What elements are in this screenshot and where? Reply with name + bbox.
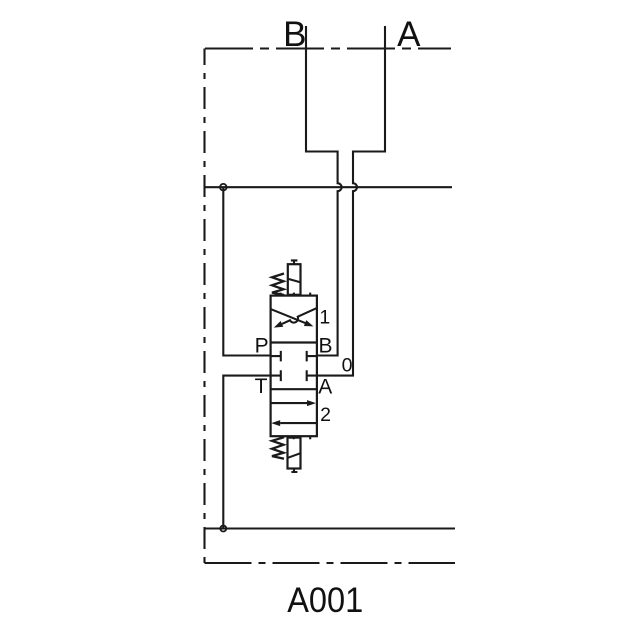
svg-text:B: B <box>283 15 306 54</box>
svg-text:T: T <box>255 375 268 398</box>
solenoid S2 manual override pin <box>291 469 297 473</box>
svg-text:P: P <box>255 334 269 357</box>
valve bottom edge tick marks <box>281 436 311 439</box>
enclosure bottom dash-dot boundary <box>205 562 456 564</box>
enclosure top dash-dot boundary <box>205 47 451 49</box>
valve position 1 crossed flow path B-to-T with hop <box>282 308 317 324</box>
solenoid S2 coil diagonal <box>288 453 301 458</box>
valve top edge tick marks <box>281 293 311 296</box>
valve position 0 blocked port stub bottom-right <box>307 370 317 381</box>
spring K1 (top) <box>272 274 284 296</box>
spring K2 (bottom) <box>272 437 284 459</box>
wire P supply rail <box>205 186 453 188</box>
valve V1 box divider lower <box>271 388 317 390</box>
arrowhead position1 down-left <box>274 321 284 328</box>
arrowhead position1 down-right <box>304 320 314 326</box>
valve position 2 flow arrow left <box>280 422 316 424</box>
solenoid S2 coil box (bottom actuator) <box>288 438 301 469</box>
valve position 0 blocked port stub top-left <box>271 351 281 362</box>
arrowhead position2 right <box>307 400 316 406</box>
svg-text:0: 0 <box>342 355 353 377</box>
arrowhead position2 left <box>271 420 280 426</box>
wire port-B line: from label B down, step right, hop over P-rail, to valve port B <box>306 26 342 356</box>
svg-text:2: 2 <box>320 404 331 426</box>
node junction on T rail <box>220 526 226 532</box>
valve V1 body outline (3-position, 4-way) <box>271 296 317 437</box>
solenoid S1 coil box (top actuator) <box>288 264 301 295</box>
svg-text:A: A <box>397 15 421 54</box>
valve position 1 crossed flow path P-to-A <box>271 309 306 323</box>
svg-text:A: A <box>318 376 332 399</box>
svg-text:1: 1 <box>319 307 330 329</box>
svg-text:B: B <box>318 334 332 357</box>
valve position 2 flow arrow right <box>271 402 308 404</box>
wire T return rail <box>205 527 456 529</box>
node junction on P rail <box>220 184 227 191</box>
valve position 0 blocked port stub top-right <box>307 351 317 362</box>
wire port-A line: from label A down, step left, hop over P-rail, to valve port A <box>317 26 385 376</box>
svg-text:A001: A001 <box>287 581 363 620</box>
solenoid S1 coil diagonal <box>288 279 301 283</box>
solenoid S1 manual override pin <box>291 260 298 264</box>
wire P branch: from junction down to valve port P <box>223 187 270 355</box>
valve V1 box divider upper <box>271 341 317 343</box>
wire T return: from valve port T down to T rail <box>223 376 270 529</box>
enclosure left dash-dot boundary <box>203 49 205 564</box>
valve position 0 blocked port stub bottom-left <box>271 370 281 381</box>
